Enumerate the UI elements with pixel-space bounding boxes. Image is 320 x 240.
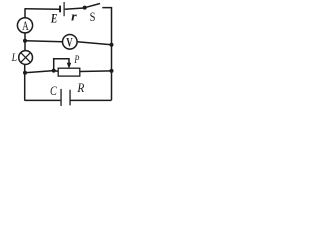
- ammeter A circle: [17, 18, 32, 33]
- junction dot right lower: [110, 69, 114, 73]
- lamp L circle: [19, 51, 33, 65]
- battery E short plate: [59, 6, 61, 13]
- junction dot mid-left: [23, 39, 27, 43]
- junction dot lower-left: [23, 71, 27, 75]
- battery E long plate: [64, 2, 65, 16]
- svg-text:L: L: [11, 50, 17, 64]
- wire battery to switch: [65, 8, 84, 9]
- wire rheostat box to right side: [80, 70, 112, 73]
- capacitor C left plate: [60, 89, 61, 106]
- svg-text:V: V: [66, 36, 72, 50]
- wire left junction to rheostat node: [25, 71, 54, 73]
- wire voltmeter right: [77, 42, 111, 45]
- switch S blade: [85, 4, 100, 8]
- junction dot right upper: [110, 43, 114, 47]
- svg-text:C: C: [50, 83, 57, 98]
- wire left side lower (corner up to lamp): [24, 64, 26, 100]
- wire bottom right segment: [70, 99, 111, 101]
- svg-text:R: R: [77, 80, 85, 95]
- svg-text:A: A: [22, 18, 29, 33]
- svg-text:E: E: [50, 11, 57, 25]
- lamp L cross: [21, 53, 31, 63]
- wiper branch wire up and over: [54, 59, 69, 71]
- voltmeter V circle: [63, 35, 78, 50]
- wire junction to ammeter: [24, 33, 26, 41]
- wire ammeter up to top corner: [24, 9, 26, 18]
- svg-text:S: S: [90, 10, 96, 24]
- wire node to rheostat box: [54, 70, 58, 73]
- rheostat R box: [58, 68, 80, 76]
- wire top-left horizontal: [25, 8, 60, 11]
- wire voltmeter left: [25, 41, 63, 42]
- wire switch to top-right corner and right side down: [102, 8, 111, 101]
- wire lamp to junction: [24, 41, 26, 51]
- switch S pivot dot: [83, 6, 87, 10]
- junction dot rheostat node: [52, 69, 56, 73]
- capacitor C right plate: [69, 90, 70, 106]
- slider P arrowhead: [67, 63, 71, 69]
- wire bottom left segment: [24, 99, 60, 101]
- svg-text:P: P: [74, 54, 80, 66]
